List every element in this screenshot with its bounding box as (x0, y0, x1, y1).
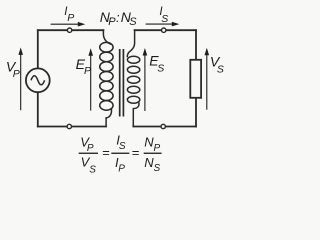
arrow IS current (146, 22, 180, 27)
equation fraction NP/NS (144, 135, 162, 174)
wire left vertical upper (37, 30, 39, 68)
svg-text:P: P (154, 143, 161, 154)
label EP (76, 56, 91, 77)
svg-text:=: = (132, 145, 140, 160)
wire right vertical upper (195, 30, 197, 60)
wire right vertical lower (195, 98, 197, 127)
arrow EP voltage (88, 48, 93, 110)
svg-text:P: P (84, 65, 91, 77)
wire top-left horizontal (38, 29, 104, 31)
wire bottom-left horizontal (38, 126, 106, 128)
inductor secondary winding (127, 29, 140, 126)
label VP (6, 58, 20, 80)
inductor primary winding (100, 29, 113, 126)
svg-text:P: P (87, 143, 94, 154)
arrow VS voltage (205, 48, 210, 110)
equation fraction IS/IP (111, 133, 129, 175)
svg-text:S: S (129, 16, 137, 28)
svg-text:P: P (118, 164, 125, 175)
label NP:NS ratio (100, 9, 137, 28)
svg-text:S: S (157, 63, 164, 75)
svg-text:P: P (13, 68, 20, 80)
node secondary top (162, 28, 166, 32)
label ES (149, 52, 164, 74)
svg-text:S: S (161, 13, 168, 25)
label IP (64, 6, 74, 24)
transformer core (120, 49, 124, 117)
svg-text:S: S (89, 164, 96, 175)
arrow IP current (51, 22, 86, 27)
arrow VP voltage (18, 47, 23, 110)
label IS (159, 6, 168, 25)
node secondary bottom (161, 124, 165, 128)
svg-text::: : (116, 10, 120, 25)
equation fraction VP/VS (79, 135, 98, 176)
svg-text:=: = (102, 145, 110, 160)
svg-text:S: S (154, 163, 161, 174)
svg-text:S: S (119, 141, 126, 152)
ac source VP (26, 68, 50, 92)
node primary bottom (67, 124, 71, 128)
resistor load (190, 60, 201, 98)
arrow ES voltage (143, 48, 148, 111)
node primary top (67, 28, 71, 32)
svg-text:S: S (217, 64, 224, 76)
label VS (210, 53, 224, 75)
wire left vertical lower (37, 92, 39, 126)
wire bottom-right horizontal (133, 126, 196, 128)
svg-text:P: P (67, 12, 74, 24)
wire top-right horizontal (135, 29, 196, 31)
